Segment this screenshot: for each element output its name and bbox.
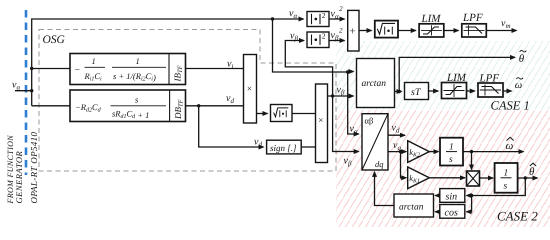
svg-text:θ: θ [529,166,535,178]
arctan block case2 [394,194,434,217]
wire adder output [359,30,372,32]
wire v_alpha input [15,90,32,92]
wire v_beta down to ab-dq block [333,96,359,152]
svg-text:1: 1 [136,56,140,66]
squarer block bottom [307,32,329,48]
wire kK1 to multiplier box [429,177,465,179]
svg-text:arctan: arctan [362,79,387,89]
svg-text:CASE 1: CASE 1 [491,99,530,113]
wire arctan output to sT [395,91,402,93]
svg-text:LPF: LPF [479,73,500,85]
wire to DB input [32,105,70,107]
CASE 2 pink hatched region [336,110,550,227]
node v_alpha top junction [271,17,274,20]
svg-text:1: 1 [504,169,509,179]
svg-text:s: s [449,155,453,165]
svg-text:−: − [74,66,80,76]
wire LPF to v_m output [486,30,516,32]
svg-text:GENERATOR: GENERATOR [14,150,24,203]
svg-text:s: s [504,182,508,192]
svg-text:sRd1Cd + 1: sRd1Cd + 1 [112,109,149,121]
squarer block top [307,11,329,27]
svg-text:s + 1/(Ri2Ci): s + 1/(Ri2Ci) [113,71,156,83]
node arctan v_alpha junction [346,70,349,73]
LPF block case1 [478,83,503,97]
svg-text:vd: vd [226,93,234,105]
wire squarer bottom output [329,40,345,42]
svg-text:vd: vd [254,137,262,149]
svg-text:cos: cos [445,208,458,219]
gain kK1 [408,167,430,189]
svg-text:1: 1 [92,56,96,66]
wire multiplier1 output [257,113,268,115]
svg-text:vm: vm [501,18,511,30]
gain kK2 [408,141,430,163]
svg-text:×: × [247,84,252,94]
wire sin to arctan2 [435,195,440,197]
svg-text:2: 2 [322,32,326,41]
adder block [348,10,359,51]
wire v_q to gain kK2 [388,151,406,153]
sin block [440,189,465,203]
wire kK2 to integrator [429,151,438,153]
node omega hat junction [470,150,473,153]
wire sqrt output [292,113,316,115]
wire omega tilde output [503,90,512,92]
svg-text:OPAL-RT OP5410: OPAL-RT OP5410 [29,132,39,204]
integrator block 2 [495,163,518,193]
wire branch into multiplier box [471,152,473,170]
svg-text:sT: sT [411,87,422,98]
LPF block top [462,24,487,37]
svg-text:vβ2: vβ2 [331,27,343,43]
block DB_TF [70,90,186,122]
CASE 1 cyan hatched region [336,41,550,110]
svg-text:LIM: LIM [421,13,442,25]
wire squarer top output [329,18,345,20]
integrator block 1 [440,138,463,166]
svg-text:arctan: arctan [399,203,424,213]
label theta hat [529,163,536,178]
svg-text:dq: dq [375,159,384,169]
cos block [440,205,465,219]
svg-text:θ: θ [519,53,525,65]
wire LIM to LPF [444,30,459,32]
svg-text:OSG: OSG [43,34,66,46]
svg-text:vβ: vβ [290,31,298,43]
node v_d junction [197,104,200,107]
wire v_alpha bus vertical and top run [32,19,304,106]
wire sign output [301,146,315,148]
svg-text:ω: ω [506,140,514,152]
node v_q junction [399,150,402,153]
wire multiplier to integrator2 [480,177,494,179]
node IB branch junction [30,67,33,70]
node feedback junction [470,194,473,197]
arctan block case1 [357,59,395,108]
label omega tilde [515,78,523,92]
wire v_q branch to gain kK1 [401,152,407,178]
wire IB output v_i [186,68,244,70]
node theta branch junction [398,90,401,93]
svg-text:+: + [349,25,355,37]
wire to IB input [32,68,70,70]
wire arctan2 feedback to dq [375,172,395,206]
sqrt block middle [271,105,293,122]
sT block [405,83,429,100]
ab-dq transform block [362,114,388,170]
label theta tilde [519,50,527,65]
svg-text:×: × [318,115,323,125]
node input junction [30,89,33,92]
svg-text:CASE 2: CASE 2 [497,209,538,224]
svg-text:sin: sin [446,192,458,203]
svg-text:1: 1 [449,143,454,153]
wire v_d case2 stub [388,134,405,136]
wire v_beta up to squarer [285,41,332,97]
svg-text:αβ: αβ [365,116,374,126]
svg-text:vα: vα [289,8,297,20]
LIM block top [419,24,444,37]
block IB_TF [70,54,186,85]
wire LIM to LPF case1 [467,90,475,92]
svg-text:ω: ω [515,80,522,91]
OSG dashed boundary [39,30,336,172]
wire feedback to cos [467,196,472,212]
LIM block case1 [442,83,467,99]
svg-text:LIM: LIM [446,72,467,84]
wire v_alpha down to ab-dq block [348,72,359,134]
wire feedback down to sin [467,178,526,196]
wire cos to arctan2 [435,211,440,213]
wire theta tilde output [399,57,515,91]
svg-text:LPF: LPF [462,12,483,24]
wire sT to LIM [429,90,439,92]
wire DB output v_d [186,105,244,107]
svg-text:sign [.]: sign [.] [270,143,297,153]
wire v_beta from multiplier2 to arctan [328,95,354,97]
label omega hat [506,137,514,152]
multiplier block 2 [316,84,328,163]
blue dashed acquisition line [25,10,28,175]
wire sqrt to LIM [398,30,416,32]
svg-text:2: 2 [322,11,326,20]
sqrt block top [375,21,398,38]
sign block [267,140,302,154]
svg-text:vα2: vα2 [331,5,344,21]
svg-text:vi: vi [227,59,233,71]
wire v_d branch to sign block [199,106,264,147]
wire omega hat output [463,151,524,153]
svg-text:vα: vα [12,80,20,92]
wire v_alpha down run to arctan bus [273,19,348,72]
multiplier block 1 [244,55,257,124]
node v_beta junction [331,94,334,97]
node theta hat junction [524,176,527,179]
wire integrator2 to theta hat output [518,177,538,179]
wire v_alpha into arctan [348,71,354,73]
multiplier box case2 [467,171,480,186]
